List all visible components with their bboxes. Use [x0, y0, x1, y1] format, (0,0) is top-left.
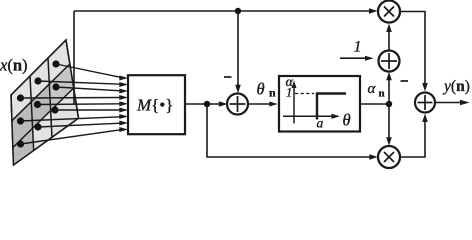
wire A1 to nonlinearity: [248, 103, 271, 105]
minus sign at A1 top input: [224, 76, 232, 78]
arrowheads into M: [119, 76, 128, 133]
signal plane x(n): [11, 40, 79, 165]
wire top rail branch down to adder A1: [237, 11, 239, 86]
svg-text:n: n: [269, 86, 276, 100]
wire output y(n): [435, 102, 462, 104]
junction on top rail: [235, 8, 241, 14]
svg-text:1: 1: [354, 39, 362, 56]
sample dots: [17, 60, 60, 147]
grid row line 1: [12, 64, 70, 121]
nonlinearity box: [279, 76, 360, 132]
svg-text:n: n: [379, 88, 385, 100]
svg-text:θ: θ: [257, 80, 265, 99]
junction alpha_n: [386, 101, 392, 107]
multiplier M2: [378, 146, 400, 168]
adder A2: [379, 51, 400, 72]
wire alpha_n up to A2: [388, 78, 390, 104]
adder A1: [227, 94, 248, 115]
adder A3: [415, 93, 435, 113]
svg-text:α: α: [368, 81, 377, 97]
graph h axis: [283, 115, 334, 117]
wire alpha_n: [360, 103, 389, 105]
graph step: [317, 94, 346, 120]
svg-text:y(n): y(n): [442, 78, 470, 95]
sample arrows into M: [21, 64, 121, 144]
graph v axis: [293, 83, 295, 124]
wire bottom rail: [207, 104, 371, 157]
svg-text:1: 1: [286, 86, 292, 100]
wire M1 output to A3: [400, 12, 425, 86]
wire center-sample tap to top rail: [73, 11, 75, 104]
wire M output: [185, 103, 221, 105]
graph dashed level 1: [295, 93, 314, 95]
wire 1 into A2: [340, 57, 367, 59]
wire top rail: [74, 10, 371, 12]
shaded band right of col1: [49, 64, 73, 111]
shaded cell center: [31, 84, 50, 128]
grid row line 2: [13, 88, 74, 148]
shaded cell bottom-left: [13, 128, 34, 165]
svg-text:x(n): x(n): [0, 56, 28, 75]
svg-text:M{•}: M{•}: [136, 96, 173, 115]
block M{.}: [128, 75, 185, 134]
svg-text:θ: θ: [343, 111, 351, 130]
junction on M output: [204, 101, 210, 107]
minus sign at A2 bottom input: [401, 80, 409, 82]
grid column line 1: [48, 58, 52, 137]
wire M2 output to A3: [400, 120, 425, 158]
multiplier M1: [378, 1, 400, 23]
shaded cell left-mid: [12, 102, 33, 148]
wire A2 up to M1: [388, 30, 390, 51]
grid column line 2: [30, 76, 34, 150]
svg-text:a: a: [317, 116, 324, 131]
wire alpha_n down to M2: [388, 104, 390, 139]
